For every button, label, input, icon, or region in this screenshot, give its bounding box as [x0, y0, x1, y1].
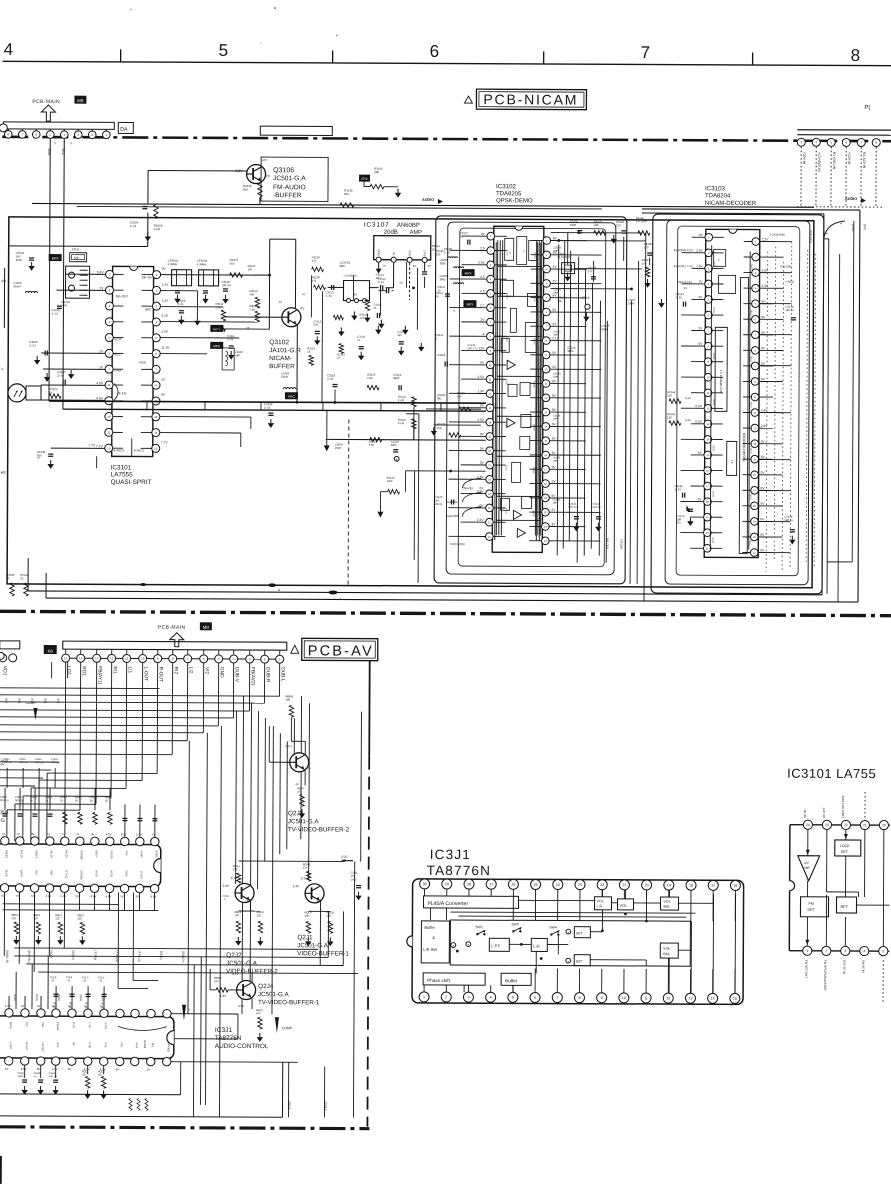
svg-text:22: 22 — [600, 883, 604, 887]
svg-text:VIDEO-BUFFER-1: VIDEO-BUFFER-1 — [297, 950, 349, 957]
svg-text:JC501-G.A: JC501-G.A — [273, 175, 306, 182]
svg-text:.7V: .7V — [99, 286, 105, 290]
svg-text:3: 3 — [844, 949, 846, 953]
svg-text:100: 100 — [248, 267, 253, 271]
svg-text:Q2J1: Q2J1 — [297, 934, 313, 941]
svg-text:5.6K: 5.6K — [369, 443, 375, 447]
svg-text:9: 9 — [601, 996, 603, 1000]
svg-text:4.8V: 4.8V — [21, 1067, 27, 1071]
svg-text:470: 470 — [297, 790, 302, 794]
svg-text:DATA: DATA — [712, 445, 715, 451]
svg-text:COMP.: COMP. — [282, 1026, 293, 1030]
svg-text:56uH: 56uH — [281, 375, 288, 379]
svg-text:1: 1 — [423, 995, 425, 999]
svg-text:5V: 5V — [400, 281, 404, 285]
svg-text:2.2V: 2.2V — [762, 237, 769, 241]
svg-text:IC3103: IC3103 — [705, 185, 726, 192]
svg-text:5: 5 — [882, 949, 884, 953]
svg-text:AFT: AFT — [840, 904, 848, 909]
svg-text:18: 18 — [689, 883, 693, 887]
svg-text:220: 220 — [98, 1073, 103, 1077]
svg-text:IC3102: IC3102 — [496, 183, 517, 190]
svg-text:A1L2N: A1L2N — [65, 850, 69, 858]
svg-text:5.5624MHz: 5.5624MHz — [344, 274, 358, 278]
svg-text:CTRL: CTRL — [750, 539, 752, 546]
svg-text:18P: 18P — [553, 292, 558, 295]
svg-text:PLLV: PLLV — [505, 336, 507, 342]
svg-text:A1L1N: A1L1N — [50, 850, 54, 858]
svg-text:GNO: GNO — [125, 870, 129, 876]
svg-text:F+36: F+36 — [398, 421, 405, 425]
svg-text:VO1: VO1 — [2, 666, 8, 676]
svg-text:(SQ1): (SQ1) — [35, 994, 39, 1001]
svg-text:VOL: VOL — [664, 900, 671, 904]
svg-text:TDA8205: TDA8205 — [496, 191, 522, 197]
svg-text:BPF: BPF — [340, 264, 346, 268]
svg-text:L-R: L-R — [533, 943, 540, 948]
svg-text:PLLV: PLLV — [505, 422, 507, 428]
svg-text:L/R SW: L/R SW — [423, 947, 437, 952]
svg-text:PLLV: PLLV — [504, 508, 506, 514]
svg-text:(DUB-BL): (DUB-BL) — [27, 950, 31, 963]
svg-text:-.01: -.01 — [50, 978, 55, 982]
svg-text:TA8776N: TA8776N — [427, 863, 492, 878]
svg-text:AMP: AMP — [804, 866, 811, 870]
svg-text:QUASI-SPRIT: QUASI-SPRIT — [111, 479, 152, 486]
svg-text:5.6 1/2W: 5.6 1/2W — [636, 219, 647, 223]
svg-text:A SH: A SH — [88, 1042, 92, 1048]
svg-text:L3111: L3111 — [72, 247, 80, 251]
svg-text:(ISQL): (ISQL) — [159, 951, 163, 960]
svg-text:NICAM-DECODER: NICAM-DECODER — [705, 201, 757, 207]
svg-text:50uH: 50uH — [601, 327, 608, 331]
svg-text:5.6K: 5.6K — [367, 376, 373, 380]
svg-text:2.5: 2.5 — [480, 289, 485, 293]
svg-text:DATA: DATA — [712, 491, 715, 497]
svg-text:1.2V: 1.2V — [162, 283, 170, 287]
svg-text:L-OUT: L-OUT — [9, 1042, 13, 1050]
svg-text:1K: 1K — [20, 576, 24, 580]
svg-text:(D4): (D4) — [56, 698, 60, 703]
svg-text:50V 1u: 50V 1u — [15, 798, 24, 802]
svg-text:10K: 10K — [234, 913, 239, 917]
svg-text:5600: 5600 — [18, 1074, 24, 1078]
svg-text:PCB-NICAM: PCB-NICAM — [483, 91, 578, 107]
svg-text:Buffer: Buffer — [505, 978, 518, 983]
svg-text:100u: 100u — [351, 878, 357, 882]
svg-text:3.1V: 3.1V — [161, 314, 169, 318]
svg-text:PLLV: PLLV — [506, 250, 508, 256]
svg-text:F1SHF: F1SHF — [56, 1022, 60, 1031]
svg-text:10uH: 10uH — [627, 301, 634, 305]
svg-text:CTRL: CTRL — [751, 309, 753, 316]
svg-text:18P: 18P — [552, 502, 557, 505]
svg-text:C3125: C3125 — [434, 495, 442, 499]
svg-text:7: 7 — [556, 996, 558, 1000]
svg-text:1N: 1N — [392, 252, 396, 256]
svg-text:YR OUT: YR OUT — [41, 1042, 45, 1052]
svg-text:MPX: MPX — [213, 344, 221, 348]
svg-text:5.6R: 5.6R — [154, 227, 160, 231]
svg-text:.7V: .7V — [46, 832, 50, 836]
svg-text:MPX: MPX — [466, 303, 474, 307]
svg-text:LOCK: LOCK — [840, 844, 850, 848]
svg-text:9.1V: 9.1V — [285, 744, 292, 748]
svg-text:IGACER) 2.5V: IGACER) 2.5V — [674, 248, 694, 252]
svg-text:8.1V: 8.1V — [121, 832, 127, 836]
svg-text:PCB-MAIN: PCB-MAIN — [32, 99, 60, 105]
svg-text:-BUFFER: -BUFFER — [273, 192, 302, 199]
svg-text:220: 220 — [82, 1072, 87, 1076]
svg-text:C3118: C3118 — [437, 353, 445, 357]
svg-text:L-1N: L-1N — [88, 1022, 92, 1028]
svg-text:(D2): (D2) — [30, 698, 34, 703]
svg-text:SW3: SW3 — [511, 922, 518, 926]
svg-text:DA: DA — [120, 127, 128, 133]
svg-text:N1-(DG)-IN: N1-(DG)-IN — [832, 152, 836, 170]
svg-text:F+36: F+36 — [398, 398, 405, 402]
svg-text:5.2V: 5.2V — [61, 894, 67, 898]
svg-text:5: 5 — [512, 996, 514, 1000]
svg-text:NICAM-: NICAM- — [269, 355, 292, 362]
svg-text:1u: 1u — [357, 338, 361, 342]
svg-text:9.1V: 9.1V — [232, 972, 239, 976]
svg-text:LA7555: LA7555 — [111, 471, 134, 478]
svg-text:C3156: C3156 — [581, 296, 590, 300]
svg-text:11: 11 — [644, 996, 648, 1000]
svg-text:10: 10 — [622, 996, 626, 1000]
svg-text:25: 25 — [534, 883, 538, 887]
svg-text:5V: 5V — [101, 1006, 104, 1009]
svg-text:VOL: VOL — [597, 899, 604, 903]
svg-text:20dB: 20dB — [384, 230, 398, 236]
svg-text:2-.01: 2-.01 — [51, 312, 58, 316]
svg-text:(SQL1): (SQL1) — [71, 950, 75, 960]
svg-text:PCB-AV: PCB-AV — [308, 643, 374, 659]
svg-text:3: 3 — [483, 332, 485, 336]
svg-text:.7V: .7V — [61, 832, 65, 836]
svg-text:27K: 27K — [303, 866, 308, 870]
svg-text:JC501-G.A: JC501-G.A — [226, 960, 258, 967]
svg-text:50V 3u: 50V 3u — [49, 1074, 58, 1078]
svg-text:CTRL: CTRL — [750, 493, 752, 500]
svg-text:+: + — [467, 943, 469, 947]
svg-text:VCC: VCC — [408, 250, 412, 256]
svg-text:(SQ3): (SQ3) — [79, 994, 83, 1001]
svg-text:NF IN: NF IN — [803, 810, 807, 818]
svg-text:DATA: DATA — [711, 537, 714, 543]
svg-text:LI2: LI2 — [188, 667, 194, 674]
svg-text:SQ1N: SQ1N — [95, 850, 99, 857]
svg-text:Q2J2: Q2J2 — [226, 952, 242, 959]
svg-text:16V +7u: 16V +7u — [467, 346, 478, 350]
svg-text:470: 470 — [312, 279, 317, 283]
svg-text:+7: +7 — [37, 456, 41, 460]
svg-text:560: 560 — [249, 292, 254, 296]
svg-text:L(B)1N: L(B)1N — [35, 850, 39, 858]
svg-text:I²L40/A Converter: I²L40/A Converter — [427, 901, 468, 907]
svg-text:P(: P( — [864, 105, 870, 111]
svg-text:1K: 1K — [307, 350, 311, 354]
svg-text:3: 3 — [467, 995, 469, 999]
svg-text:220: 220 — [667, 415, 672, 419]
svg-text:SIF-OUT: SIF-OUT — [115, 294, 128, 298]
svg-text:CTRL: CTRL — [751, 401, 753, 408]
svg-text:KB: KB — [48, 648, 54, 653]
svg-text:MF-01: MF-01 — [434, 502, 442, 506]
svg-text:220: 220 — [55, 916, 60, 920]
svg-text:23: 23 — [825, 823, 829, 827]
svg-text:DUB-V: DUB-V — [234, 667, 240, 683]
svg-text:24: 24 — [556, 883, 560, 887]
svg-text:2.5V: 2.5V — [478, 375, 485, 379]
svg-text:9.1V: 9.1V — [231, 876, 238, 880]
svg-text:+2V: +2V — [261, 158, 268, 162]
svg-text:6: 6 — [430, 42, 440, 61]
svg-text:18P: 18P — [553, 460, 558, 463]
svg-text:(L: (L — [1, 367, 4, 371]
svg-text:2.5V: 2.5V — [478, 261, 485, 265]
svg-text:ICK(1B#B): ICK(1B#B) — [450, 542, 464, 546]
svg-text:FB(AV2): FB(AV2) — [250, 667, 256, 685]
svg-text:QPSK-DEMO: QPSK-DEMO — [496, 198, 533, 204]
svg-text:EXT AF IN: EXT AF IN — [842, 960, 846, 974]
svg-text:SW4: SW4 — [549, 926, 556, 930]
svg-text:2.5V: 2.5V — [477, 418, 484, 422]
svg-text:5V: 5V — [53, 1006, 56, 1009]
svg-text:BASS: BASS — [9, 1022, 13, 1029]
svg-text:0.3V: 0.3V — [695, 404, 702, 408]
svg-text:15K: 15K — [457, 394, 462, 398]
svg-text:18P: 18P — [553, 334, 558, 337]
svg-text:50V 1u: 50V 1u — [592, 505, 601, 509]
svg-text:IP444: IP444 — [143, 1041, 147, 1049]
svg-text:APC: APC — [145, 308, 152, 312]
svg-text:7.7V: 7.7V — [96, 444, 104, 448]
svg-text:SCF WEIGHT 3.1: SCF WEIGHT 3.1 — [719, 369, 723, 393]
svg-text:27: 27 — [489, 883, 493, 887]
svg-text:2.7: 2.7 — [480, 303, 485, 307]
svg-text:SCH: SCH — [135, 1042, 139, 1048]
svg-text:IF-1N: IF-1N — [118, 391, 127, 395]
svg-text:BAL: BAL — [663, 905, 670, 909]
svg-text:A0L1N: A0L1N — [20, 850, 24, 858]
svg-text:(A.1B: (A.1B — [5, 870, 9, 877]
svg-text:0V: 0V — [480, 486, 484, 490]
svg-text:Phase shift: Phase shift — [427, 978, 450, 983]
svg-text:470: 470 — [312, 259, 317, 263]
svg-text:2.4V: 2.4V — [293, 884, 300, 888]
svg-text:GND: GND — [219, 667, 225, 678]
svg-text:11: 11 — [154, 431, 157, 435]
svg-text:(-A01): (-A01) — [786, 280, 794, 284]
svg-text:L.P.F: L.P.F — [491, 943, 501, 948]
svg-text:2V: 2V — [353, 293, 357, 297]
svg-text:MB: MB — [77, 98, 84, 103]
svg-text:TV-VIDEO-BUFFER-1: TV-VIDEO-BUFFER-1 — [258, 999, 320, 1006]
svg-text:12: 12 — [107, 446, 111, 450]
svg-text:AN60BP: AN60BP — [397, 223, 420, 229]
svg-text:(SERE) 2V: (SERE) 2V — [678, 280, 693, 284]
svg-text:VOL: VOL — [120, 1042, 124, 1048]
svg-text:6800: 6800 — [393, 376, 400, 380]
svg-text:NICAM DECODER: NICAM DECODER — [742, 432, 746, 461]
svg-text:H2: H2 — [1, 470, 7, 475]
svg-text:6.0MHz: 6.0MHz — [197, 262, 208, 266]
svg-text:5.8V: 5.8V — [97, 270, 105, 274]
svg-text:6800: 6800 — [391, 443, 398, 447]
svg-text:4: 4 — [4, 40, 14, 59]
svg-text:7.7V: 7.7V — [161, 441, 169, 445]
svg-text:560: 560 — [344, 192, 349, 196]
svg-text:0.3V: 0.3V — [685, 396, 691, 400]
svg-text:(D3): (D3) — [43, 698, 47, 703]
svg-text:6.0MHz: 6.0MHz — [168, 262, 179, 266]
svg-text:JC501-G.A: JC501-G.A — [297, 942, 329, 949]
svg-text:1.3V: 1.3V — [477, 389, 484, 393]
svg-text:DATA: DATA — [712, 353, 715, 359]
svg-text:2V: 2V — [428, 264, 432, 268]
svg-text:7: 7 — [641, 43, 651, 62]
svg-text:IC3101 LA755: IC3101 LA755 — [787, 766, 876, 781]
svg-text:5V: 5V — [85, 1006, 88, 1009]
svg-text:2-.01: 2-.01 — [675, 296, 682, 300]
svg-text:5V: 5V — [69, 1006, 72, 1009]
svg-text:2.4V: 2.4V — [223, 884, 230, 888]
svg-text:(D1): (D1) — [17, 698, 21, 703]
svg-text:SDA: SDA — [50, 870, 54, 876]
svg-text:DUB-R: DUB-R — [265, 667, 271, 683]
svg-text:JA101-G.R: JA101-G.R — [269, 347, 301, 354]
svg-text:MPX: MPX — [465, 271, 473, 275]
svg-text:Q2J3: Q2J3 — [288, 810, 304, 817]
svg-text:DC ATT: DC ATT — [822, 807, 826, 818]
svg-text:FP2: FP2 — [362, 177, 368, 181]
svg-text:11: 11 — [125, 657, 128, 661]
svg-text:LOCK DET SCO: LOCK DET SCO — [841, 795, 845, 818]
svg-text:(DUBL-B): (DUBL-B) — [5, 950, 9, 963]
svg-text:-.01: -.01 — [98, 979, 103, 983]
svg-text:IF4DC1: IF4DC1 — [134, 448, 145, 452]
svg-text:PLLV: PLLV — [505, 465, 507, 471]
svg-text:2.5V: 2.5V — [696, 249, 703, 253]
svg-text:18P: 18P — [554, 250, 559, 253]
svg-text:380u: 380u — [440, 261, 447, 265]
svg-text:220: 220 — [256, 913, 261, 917]
svg-text:13: 13 — [95, 656, 99, 660]
svg-text:15K: 15K — [437, 426, 442, 430]
svg-text:21: 21 — [622, 883, 626, 887]
svg-text:BAL: BAL — [663, 952, 670, 956]
svg-text:10: 10 — [107, 415, 111, 419]
svg-text:23: 23 — [578, 883, 582, 887]
svg-text:1YV2N: 1YV2N — [140, 871, 144, 879]
svg-text:(SQ2): (SQ2) — [57, 994, 61, 1001]
svg-text:7.5V: 7.5V — [696, 264, 703, 268]
svg-text:288: 288 — [374, 170, 379, 174]
svg-text:N1-A2V-IN: N1-A2V-IN — [862, 152, 866, 169]
svg-text:DECO: DECO — [534, 338, 536, 345]
svg-text:12: 12 — [154, 447, 158, 451]
svg-text:TDA8204: TDA8204 — [705, 193, 731, 199]
svg-text:2-.06: 2-.06 — [57, 374, 64, 378]
svg-text:18u: 18u — [557, 299, 562, 303]
svg-text:220: 220 — [11, 916, 16, 920]
svg-text:30: 30 — [423, 882, 427, 886]
svg-text:2-.01: 2-.01 — [325, 294, 332, 298]
svg-text:1-0: 1-0 — [588, 269, 593, 273]
svg-text:50V 1u: 50V 1u — [3, 760, 12, 764]
svg-text:7V: 7V — [1, 894, 5, 898]
svg-text:R-OUT: R-OUT — [158, 667, 164, 682]
svg-text:IGACOL): IGACOL) — [446, 500, 458, 504]
svg-text:0V: 0V — [37, 1067, 41, 1071]
svg-text:DECO: DECO — [534, 381, 536, 388]
svg-text:16: 16 — [733, 884, 737, 888]
svg-text:220: 220 — [667, 393, 672, 397]
svg-text:0B: 0B — [53, 1002, 56, 1005]
svg-text:27K: 27K — [233, 867, 238, 871]
svg-text:AY2O: AY2O — [110, 870, 114, 877]
svg-text:10: 10 — [154, 415, 158, 419]
svg-text:680: 680 — [230, 261, 235, 265]
svg-text:4V: 4V — [21, 1004, 25, 1008]
svg-text:L1 5x8mm: L1 5x8mm — [558, 255, 571, 259]
svg-text:DATA: DATA — [712, 307, 715, 313]
svg-text:IGACOL) 7.5V: IGACOL) 7.5V — [674, 264, 693, 268]
svg-text:0.3V: 0.3V — [695, 420, 702, 424]
svg-text:10uH: 10uH — [335, 446, 342, 450]
svg-text:1K: 1K — [90, 799, 94, 803]
svg-text:18P: 18P — [553, 376, 558, 379]
svg-text:1u: 1u — [30, 798, 34, 802]
svg-text:RFC: RFC — [288, 395, 295, 399]
svg-text:Buffer: Buffer — [424, 925, 435, 930]
svg-text:(SQ4): (SQ4) — [101, 994, 105, 1001]
svg-text:0V: 0V — [116, 1067, 120, 1071]
svg-text:26: 26 — [511, 883, 515, 887]
svg-text:4.8V: 4.8V — [106, 894, 112, 898]
svg-text:(1P5 A61): (1P5 A61) — [809, 230, 813, 243]
svg-text:uAHO: uAHO — [20, 870, 24, 877]
svg-text:SCL: SCL — [35, 870, 39, 876]
svg-text:+32V-IN: +32V-IN — [802, 152, 806, 165]
svg-text:12V: 12V — [479, 346, 486, 350]
svg-text:7.7V: 7.7V — [89, 443, 96, 447]
svg-text:17: 17 — [711, 884, 715, 888]
svg-text:-.01: -.01 — [82, 978, 87, 982]
svg-text:560: 560 — [243, 188, 248, 192]
svg-text:170: 170 — [644, 245, 649, 249]
svg-text:2-.01: 2-.01 — [29, 343, 36, 347]
svg-text:IC3J1: IC3J1 — [215, 1027, 233, 1034]
svg-text:1K: 1K — [75, 798, 79, 802]
svg-text:.7V: .7V — [16, 832, 20, 836]
svg-text:100: 100 — [214, 979, 219, 983]
svg-text:AUDIO: AUDIO — [422, 198, 434, 202]
svg-text:+: + — [567, 930, 569, 934]
svg-text:CHO(B): CHO(B) — [80, 870, 84, 879]
svg-text:50V 1u: 50V 1u — [51, 760, 60, 764]
svg-text:16V: 16V — [434, 498, 439, 502]
svg-text:L-OUT: L-OUT — [143, 667, 149, 681]
svg-text:DATA: DATA — [712, 399, 715, 405]
svg-text:GNO(D): GNO(D) — [167, 1043, 171, 1053]
svg-text:50V 1u: 50V 1u — [568, 505, 577, 509]
svg-text:RO1: RO1 — [81, 666, 87, 676]
svg-text:7V: 7V — [76, 832, 80, 836]
svg-text:4: 4 — [490, 996, 492, 1000]
